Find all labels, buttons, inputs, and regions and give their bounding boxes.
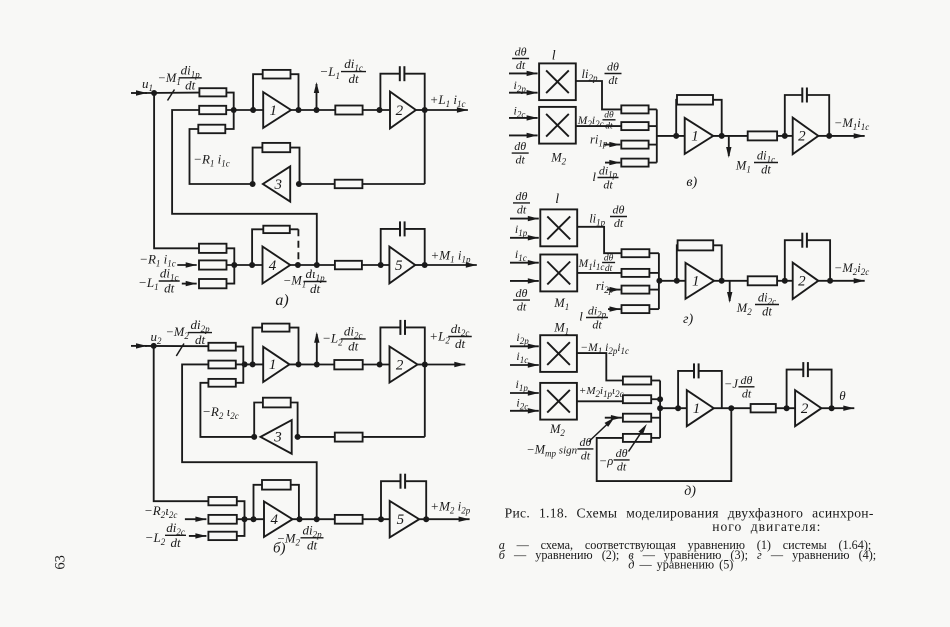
svg-text:−M2i2c: −M2i2c [834, 261, 869, 277]
wire amp3 input from right b [363, 436, 425, 438]
svg-text:4: 4 [269, 258, 277, 274]
node a takeoff arrow [314, 107, 320, 113]
input arrow d box2 top [510, 392, 539, 394]
node u2 [151, 343, 157, 349]
input label dtheta/dt v box1 [512, 58, 529, 60]
resistor d-R4 [623, 434, 651, 442]
resistor a amp2 input [335, 106, 362, 115]
node b amp4 output [297, 516, 303, 522]
svg-text:dt: dt [195, 332, 206, 347]
op-amp a-5 [389, 247, 415, 284]
node g amp1 feedback tap [674, 278, 680, 284]
resistor b-R2 [208, 361, 235, 369]
svg-text:dt: dt [761, 163, 771, 177]
svg-text:i1p: i1p [515, 222, 528, 238]
wire to amp2 g [777, 280, 793, 282]
input label dtheta/dt g box2 [513, 299, 530, 301]
svg-text:2: 2 [798, 129, 806, 145]
resistor a-R6 (lower bottom) [199, 279, 227, 288]
input arrow v box2 top [509, 117, 538, 119]
feedback resistor b amp4 [254, 485, 263, 519]
resistor a amp5 input [335, 261, 362, 270]
node b takeoff arrow [314, 362, 320, 368]
wire v box2 output to R2 [576, 125, 622, 127]
node v amp2 output [826, 133, 832, 139]
svg-text:i2p: i2p [516, 330, 529, 346]
wire b-R1 right to junction [236, 347, 244, 365]
takeoff arrow -L1 di1c/dt [316, 84, 318, 110]
node b amp3 right [295, 434, 301, 440]
takeoff arrow -L2 di2c/dt [316, 334, 318, 365]
svg-text:dθ: dθ [604, 111, 614, 121]
feedback capacitor a amp5 [381, 229, 400, 265]
schematic d: multiplier box M1 (top) [540, 335, 577, 372]
resistor b-R3 [208, 379, 235, 387]
svg-text:2: 2 [801, 401, 809, 417]
svg-text:dt: dt [603, 177, 613, 191]
svg-text:dt: dt [170, 535, 181, 550]
node b amp1 output [296, 361, 302, 367]
node d before amp2 [784, 405, 790, 411]
feedback capacitor d amp1 [678, 371, 694, 408]
junction a before amp4 [231, 262, 237, 268]
resistor v-R4 [621, 159, 648, 167]
feedback resistor b amp3 [254, 403, 263, 437]
op-amp b-2 [390, 347, 418, 383]
wire amp1 out to resistor [291, 109, 335, 111]
svg-text:б): б) [273, 541, 286, 557]
output arrow +L1 i1c [416, 109, 425, 111]
svg-text:dθ: dθ [613, 203, 625, 217]
svg-text:−Mmp sign: −Mmp sign [526, 443, 577, 459]
wire junction to amp1 b [236, 363, 263, 365]
svg-text:l: l [592, 169, 596, 184]
svg-text:−M1i1c: −M1i1c [834, 116, 869, 132]
node a before amp5 [378, 262, 384, 268]
input arrow v R3 [604, 144, 620, 146]
resistor d-R1 [623, 377, 651, 385]
wire to amp2 [363, 109, 390, 111]
svg-text:+M2 i2p: +M2 i2p [430, 499, 470, 516]
svg-text:dt: dt [617, 459, 627, 473]
resistor g-R2 [622, 269, 650, 277]
input arrow d box2 bottom [510, 410, 539, 412]
input arrow g R3 [607, 289, 621, 291]
input arrow g R4 [608, 308, 621, 310]
feedback resistor g amp1 [676, 245, 679, 280]
svg-text:д — уравнению (5): д — уравнению (5) [628, 557, 733, 571]
multiplier box M2 d (bottom) [540, 383, 577, 420]
svg-text:+L1 i1c: +L1 i1c [430, 92, 466, 109]
wire d box1 output to R1 [577, 353, 623, 380]
input arrow g box2 bottom [510, 280, 539, 282]
resistor g-R4 [622, 305, 650, 313]
node g amp1 junction [656, 278, 662, 284]
wire b-R6 right [237, 519, 245, 536]
svg-text:−ρ: −ρ [599, 454, 613, 468]
bus v resistors right [649, 108, 657, 110]
output arrow -M2 i2c [818, 280, 830, 282]
svg-text:dθ: dθ [604, 253, 614, 263]
wire bus to amp1 d [660, 407, 687, 409]
svg-text:dt: dt [307, 537, 318, 552]
node g before amp2 [782, 278, 788, 284]
wire amp3 out to resistor b-R3 [200, 383, 254, 437]
resistor v-R1 [621, 105, 648, 113]
schematic v: multiplier box l (top) [539, 63, 576, 100]
resistor a-R5 (lower mid) [199, 260, 227, 269]
svg-text:dt: dt [605, 121, 613, 131]
svg-text:dt: dt [185, 77, 196, 92]
svg-text:1: 1 [693, 401, 701, 417]
resistor v-R2 [621, 122, 648, 130]
svg-text:i2c: i2c [516, 395, 528, 411]
svg-text:dt: dt [310, 281, 321, 296]
input label dtheta/dt g box1 [513, 202, 530, 204]
svg-text:dt: dt [517, 202, 527, 216]
feedback capacitor b amp2 [380, 327, 400, 364]
svg-text:dt: dt [605, 264, 613, 274]
svg-text:i2p: i2p [514, 78, 527, 94]
node v before amp2 [782, 133, 788, 139]
svg-text:−L2: −L2 [322, 331, 343, 348]
node b long feedback tap [314, 516, 320, 522]
input label dtheta/dt v box2 [512, 152, 529, 154]
down arrow M1 di1c/dt [728, 136, 730, 156]
feedback loop wire d (bottom) [597, 408, 732, 481]
svg-text:i2c: i2c [514, 103, 526, 119]
svg-text:dt: dt [348, 338, 359, 353]
svg-text:M2: M2 [549, 422, 565, 438]
input arrow v box2 bottom [509, 134, 538, 136]
node g amp1 output [719, 278, 725, 284]
resistor b amp3 input [335, 433, 363, 442]
svg-text:ri2p: ri2p [596, 279, 614, 295]
resistor b-R5 (lower mid) [208, 515, 236, 524]
svg-text:63: 63 [53, 555, 69, 570]
schematic b: input u2 [131, 345, 147, 347]
svg-text:dt: dt [592, 317, 602, 331]
wire amp1 out to resistor b [290, 363, 335, 365]
svg-text:dθ: dθ [607, 60, 619, 74]
wire amp3 input from right [362, 183, 424, 185]
svg-text:ного двигателя:: ного двигателя: [712, 519, 821, 534]
svg-text:dθ: dθ [516, 189, 528, 203]
node d amp1 output loop tap [728, 405, 734, 411]
svg-text:2: 2 [798, 274, 806, 290]
svg-text:д): д) [684, 484, 696, 499]
output arrow theta [821, 407, 831, 409]
wire amp1 out v [713, 135, 748, 137]
wire v box1 output to R1 [576, 81, 622, 109]
wire amp3 out to resistor a-R3 [190, 129, 253, 184]
node d amp1 feedback tap [675, 405, 681, 411]
node a amp3 right [296, 181, 302, 187]
op-amp b-5 [390, 501, 420, 537]
wire to amp5 [362, 264, 390, 266]
resistor b-R1 [208, 343, 235, 351]
node a amp5 output [422, 262, 428, 268]
svg-text:dt: dt [614, 216, 624, 230]
svg-text:dt: dt [516, 153, 526, 167]
svg-text:−L1: −L1 [320, 64, 341, 81]
svg-text:3: 3 [273, 177, 282, 193]
wire to amp4 [227, 264, 263, 266]
multiplier box M1 g (bottom) [540, 255, 577, 292]
svg-text:dt: dt [164, 281, 175, 296]
node b before amp5 [378, 516, 384, 522]
svg-text:dt: dt [742, 386, 752, 400]
junction b before amp4 [242, 516, 248, 522]
output arrow -M1 i1c [818, 135, 829, 137]
resistor d amp2 input [751, 404, 776, 412]
input arrow d box1 bottom [510, 364, 539, 366]
svg-text:+M2i1pι2c: +M2i1pι2c [579, 385, 624, 399]
input arrow d box1 top [510, 345, 539, 347]
svg-text:dt: dt [608, 73, 618, 87]
svg-text:−R2 ι2c: −R2 ι2c [202, 404, 239, 421]
wire u2 down to lower group [154, 346, 209, 501]
resistor b amp5 input [335, 515, 363, 524]
svg-text:−L1: −L1 [138, 275, 159, 292]
wire d box2 output to R2 [577, 400, 623, 402]
svg-text:M2: M2 [736, 301, 752, 317]
feedback capacitor d amp2 [787, 370, 804, 409]
node a amp4 output [295, 262, 301, 268]
node b amp2 output [422, 362, 428, 368]
junction a before amp1 [231, 107, 237, 113]
schematic a: input u1 [131, 92, 147, 94]
svg-text:l: l [579, 309, 583, 324]
node a amp1 feedback tap [250, 107, 256, 113]
node b before amp2 [377, 362, 383, 368]
svg-text:1: 1 [269, 103, 277, 119]
resistor a-R2 [199, 106, 226, 114]
svg-text:−R2ι2c: −R2ι2c [144, 503, 177, 520]
svg-text:di2c: di2c [758, 290, 776, 306]
op-amp a-4 [263, 247, 291, 284]
op-amp v-1 [685, 118, 714, 154]
wire resistor to amp3 [299, 183, 335, 185]
feedback resistor v amp1 [675, 100, 678, 136]
svg-text:−M1 i2pi1c: −M1 i2pi1c [580, 342, 629, 356]
node d amp2 output [829, 405, 835, 411]
svg-text:li1p: li1p [589, 212, 605, 228]
svg-text:i1c: i1c [515, 247, 527, 263]
svg-text:4: 4 [271, 512, 279, 528]
wire to amp2 d [776, 407, 795, 409]
wire g box2 output to R2 [577, 272, 621, 274]
svg-text:dt: dt [581, 448, 591, 462]
svg-text:dt: dt [348, 71, 359, 86]
svg-text:в): в) [686, 175, 697, 190]
resistor a amp3 input [335, 180, 363, 189]
svg-text:2: 2 [396, 103, 404, 119]
op-amp g-2 [793, 263, 819, 300]
resistor a-R4 (lower top) [199, 244, 227, 253]
wire b-R4 right [237, 501, 245, 519]
wire u1 down to lower group [154, 93, 199, 248]
op-amp d-2 [795, 390, 821, 426]
wire to amp2 v [777, 135, 793, 137]
node v amp1 output [719, 133, 725, 139]
input arrow d R3 [605, 417, 622, 419]
slash mark on input wire b [176, 344, 184, 357]
svg-text:dt: dt [455, 336, 466, 351]
resistor b-R6 (lower bottom) [208, 532, 236, 540]
input arrow g box1 top [510, 218, 539, 220]
svg-text:−R1 i1c: −R1 i1c [193, 152, 230, 169]
node a amp4 feedback tap [249, 262, 255, 268]
op-amp g-1 [686, 263, 715, 299]
node d bus amp line [657, 405, 663, 411]
wire to amp4 b [237, 518, 264, 520]
svg-text:M2: M2 [550, 151, 566, 167]
svg-text:1: 1 [692, 274, 700, 290]
wire a-R6 right [227, 265, 235, 284]
svg-text:M1: M1 [553, 296, 569, 312]
resistor v-R3 [621, 141, 648, 149]
node v amp1 feedback tap [673, 133, 679, 139]
svg-text:i1c: i1c [516, 349, 528, 365]
feedback resistor b amp1 [253, 328, 263, 365]
wire amp4 out [290, 264, 335, 266]
multiplier box M2 v (bottom) [539, 107, 576, 144]
pointer arrow to R4 [629, 430, 644, 452]
feedback capacitor a amp2 [380, 74, 399, 110]
feedback resistor a amp1 [253, 74, 263, 110]
node b amp3 output [251, 434, 257, 440]
resistor a-R1 [199, 88, 226, 96]
pointer line to R3 input [589, 423, 609, 442]
wire junction to amp1 [226, 109, 263, 111]
wire b-R2 left to amp4 output (long feedback) [182, 364, 317, 519]
bus g resistors right [649, 252, 659, 254]
node u1 [151, 90, 157, 96]
node a long feedback tap [314, 262, 320, 268]
svg-text:5: 5 [395, 258, 403, 274]
resistor v amp2 input [748, 131, 777, 140]
resistor a-R3 [198, 125, 225, 134]
svg-text:θ: θ [839, 388, 846, 403]
wire amp1 out d [714, 407, 751, 409]
wire amp4 out b [293, 518, 335, 520]
node b amp4 feedback tap [251, 516, 257, 522]
junction b before amp1 [242, 361, 248, 367]
svg-text:−R1 i1c: −R1 i1c [139, 252, 176, 269]
wire a-R1 right to junction [226, 93, 233, 110]
wire amp2 output down to amp3 row [424, 110, 426, 184]
svg-text:1: 1 [269, 357, 277, 373]
svg-text:M2i2c: M2i2c [577, 115, 604, 129]
feedback resistor a amp4 with dashed right leg [252, 229, 263, 265]
svg-text:dt: dt [516, 58, 526, 72]
wire to amp5 b [363, 518, 390, 520]
slash mark on input wire a [168, 90, 175, 101]
svg-text:l: l [555, 192, 559, 207]
op-amp a-1 [263, 92, 291, 128]
svg-text:M1i1c: M1i1c [578, 258, 605, 272]
svg-text:u1: u1 [142, 76, 153, 93]
output arrow +M2 i2p [419, 518, 426, 520]
input arrow v R4 [605, 162, 620, 164]
bus d resistors right [651, 380, 660, 382]
wire to amp2 b [363, 364, 390, 366]
resistor g amp2 input [748, 276, 777, 285]
feedback capacitor g amp2 [785, 240, 803, 281]
svg-text:−M2: −M2 [166, 325, 190, 341]
resistor b-R4 (lower top) [208, 497, 236, 505]
svg-text:−J: −J [724, 377, 739, 391]
wire g box1 output to R1 [577, 227, 621, 253]
svg-text:dθ: dθ [516, 286, 528, 300]
svg-text:dθ: dθ [616, 446, 628, 460]
svg-text:−M1: −M1 [158, 71, 181, 87]
feedback capacitor v amp2 [785, 95, 803, 136]
node a before amp2 [377, 107, 383, 113]
input arrow g box2 top [510, 262, 539, 264]
wire amp1 out g [714, 280, 748, 282]
output arrow +L2 di2c/dt [418, 364, 425, 366]
op-amp b-4 [264, 501, 293, 537]
resistor d-R2 [623, 395, 651, 403]
op-amp d-1 [687, 390, 714, 426]
wire bus to amp1 g [659, 280, 686, 282]
wire a-R4 right [227, 248, 235, 265]
svg-text:dt: dt [762, 305, 772, 319]
svg-text:+L2: +L2 [429, 329, 450, 346]
input arrow v box1 top [509, 72, 538, 74]
wire resistor to amp3 b [298, 436, 335, 438]
resistor b amp2 input [334, 360, 362, 369]
node d bus R2 [657, 396, 663, 402]
svg-text:а): а) [275, 292, 288, 309]
op-amp v-2 [793, 118, 819, 154]
svg-text:3: 3 [273, 430, 282, 446]
svg-text:u2: u2 [151, 329, 163, 346]
resistor g-R3 [622, 286, 650, 294]
node b amp5 output [423, 516, 429, 522]
resistor g-R1 [622, 249, 650, 257]
svg-text:M1: M1 [553, 321, 569, 337]
op-amp b-1 [263, 347, 289, 382]
wire bus to amp1 v [657, 135, 685, 137]
svg-text:dθ: dθ [741, 373, 753, 387]
svg-text:i1p: i1p [516, 377, 529, 393]
svg-text:li2p: li2p [582, 67, 598, 83]
node a amp2 output [422, 107, 428, 113]
wire a-R3 right to junction [225, 110, 233, 129]
node a amp1 output [296, 107, 302, 113]
svg-text:2: 2 [396, 357, 404, 373]
svg-text:dθ: dθ [514, 139, 526, 153]
output arrow +M1 i1p [415, 264, 425, 266]
wire a-R2 left to amp4 output (long feedback) [172, 110, 317, 265]
svg-text:l: l [552, 49, 556, 64]
svg-text:−L2: −L2 [145, 530, 166, 547]
feedback resistor a amp3 [253, 148, 263, 184]
svg-text:г): г) [683, 312, 693, 327]
op-amp a-3 (left pointing) [263, 166, 290, 201]
svg-text:−M1: −M1 [283, 274, 306, 290]
feedback capacitor b amp5 [381, 481, 401, 519]
schematic g: multiplier box l (top) [540, 209, 577, 246]
node a amp3 output [250, 181, 256, 187]
svg-text:dθ: dθ [515, 45, 527, 59]
svg-text:dθ: dθ [579, 435, 591, 449]
node b amp1 feedback tap [250, 361, 256, 367]
svg-text:1: 1 [691, 129, 699, 145]
